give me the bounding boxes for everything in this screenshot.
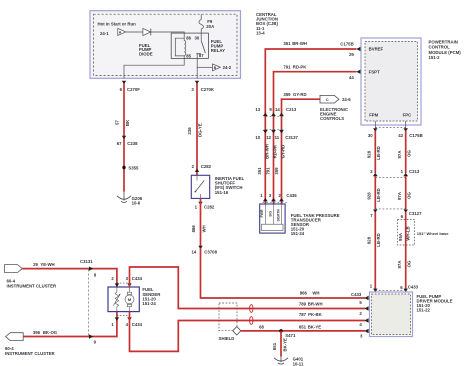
wire 359 GY-RD row and column bbox=[282, 92, 321, 204]
svg-text:YE-WH: YE-WH bbox=[40, 262, 54, 267]
svg-text:B: B bbox=[214, 66, 217, 70]
svg-text:BK-YE: BK-YE bbox=[283, 338, 288, 352]
svg-text:42: 42 bbox=[398, 133, 403, 138]
svg-text:SIGRTN: SIGRTN bbox=[277, 209, 281, 222]
svg-text:RD-PK: RD-PK bbox=[273, 144, 278, 159]
svg-text:44: 44 bbox=[349, 75, 354, 80]
svg-text:INSTRUMENT CLUSTER: INSTRUMENT CLUSTER bbox=[7, 284, 58, 289]
svg-text:C3131: C3131 bbox=[80, 259, 93, 264]
hot in start or run label bbox=[98, 22, 137, 27]
wire A-triangle to diode bbox=[126, 31, 143, 33]
svg-text:13: 13 bbox=[255, 107, 260, 112]
svg-text:BK-YE: BK-YE bbox=[308, 324, 322, 329]
svg-text:BVREF: BVREF bbox=[369, 47, 384, 52]
wire 789 BR-WH from sender pin 3 bbox=[130, 267, 366, 309]
svg-text:20A: 20A bbox=[206, 24, 214, 29]
wire row label 789 BR-WH bbox=[299, 301, 323, 306]
svg-text:24-2: 24-2 bbox=[223, 65, 232, 70]
svg-text:97A: 97A bbox=[397, 261, 402, 269]
svg-text:C433: C433 bbox=[408, 284, 419, 289]
svg-text:DG-YE: DG-YE bbox=[198, 123, 203, 137]
svg-text:BR-WH: BR-WH bbox=[292, 41, 307, 46]
connector C3131 pin 8 bbox=[80, 259, 97, 277]
svg-text:68: 68 bbox=[259, 324, 264, 329]
svg-text:396: 396 bbox=[33, 330, 41, 335]
svg-text:BR-WH: BR-WH bbox=[308, 301, 323, 306]
svg-text:789: 789 bbox=[299, 301, 307, 306]
connector C3131 dashed link bbox=[88, 270, 90, 337]
svg-text:C175B: C175B bbox=[409, 133, 422, 138]
svg-text:359: 359 bbox=[283, 92, 291, 97]
svg-text:10: 10 bbox=[255, 135, 260, 140]
svg-text:151-22: 151-22 bbox=[417, 308, 431, 313]
svg-text:24-1: 24-1 bbox=[100, 31, 109, 36]
svg-text:INSTRUMENT CLUSTER: INSTRUMENT CLUSTER bbox=[5, 351, 56, 356]
connector C238 bbox=[117, 136, 138, 146]
ground G401 bbox=[274, 356, 304, 366]
wire 651 BK-YE to ground bbox=[272, 331, 287, 357]
node A feed 24-1 bbox=[100, 28, 126, 35]
svg-text:10-11: 10-11 bbox=[293, 361, 304, 366]
connector C282 pin 2 bbox=[192, 164, 212, 172]
svg-text:29: 29 bbox=[349, 52, 354, 57]
wire 29 YE-WH row bbox=[22, 262, 117, 287]
connector C433 left pins bbox=[351, 292, 369, 338]
wire branch to B triangle bbox=[197, 66, 212, 68]
central junction box CJB outline bbox=[90, 11, 241, 79]
wire labels BR-WH 351 vertical bbox=[257, 144, 269, 174]
svg-text:C238: C238 bbox=[127, 141, 138, 146]
svg-text:C282: C282 bbox=[204, 205, 215, 210]
svg-text:C213: C213 bbox=[409, 169, 420, 174]
connector C433 top pins 1 6 bbox=[370, 284, 419, 293]
connector C 24-6 electronic engine controls bbox=[320, 95, 351, 121]
svg-text:151-24: 151-24 bbox=[142, 301, 156, 306]
connector C3131 pin 9 bbox=[89, 334, 97, 344]
alternate wire 95A WH-LB 151 wheel base bbox=[398, 220, 450, 245]
svg-text:14: 14 bbox=[192, 250, 197, 255]
svg-text:13-4: 13-4 bbox=[256, 31, 265, 36]
connector C434 top pins 2 3 bbox=[111, 276, 142, 287]
PCM bottom stubs bbox=[374, 121, 376, 129]
wire row label 787 PK-BK bbox=[299, 312, 323, 317]
wire 97A OG segment 2 bbox=[397, 176, 412, 209]
wire 351 BR-WH row and column bbox=[265, 41, 356, 203]
wire diode to relay coil bbox=[151, 32, 184, 38]
PCM label bbox=[429, 39, 462, 60]
CJB label bbox=[256, 12, 279, 36]
wire 791 RD-PK row and column bbox=[274, 64, 357, 203]
wire 866 WH vertical bbox=[191, 198, 207, 246]
svg-text:BK-OG: BK-OG bbox=[43, 330, 58, 335]
wire 57 BK vertical bbox=[115, 83, 130, 192]
svg-text:Hot in Start or Run: Hot in Start or Run bbox=[98, 22, 137, 27]
svg-text:351: 351 bbox=[283, 41, 291, 46]
wire 651 BK-YE row bbox=[241, 330, 365, 332]
inertia fuel shutoff switch bbox=[191, 175, 244, 198]
svg-text:10-6: 10-6 bbox=[132, 201, 141, 206]
connector C175B bottom pins 30 42 bbox=[368, 128, 423, 138]
svg-text:C433: C433 bbox=[351, 292, 362, 297]
fuel sender and pump motor bbox=[108, 287, 161, 312]
svg-text:C175B: C175B bbox=[340, 42, 353, 47]
connector C213 middle trio bbox=[255, 107, 296, 116]
svg-text:WH: WH bbox=[202, 225, 207, 232]
connector C175B pin 29 bbox=[340, 42, 360, 58]
connector C213 right pair bbox=[370, 169, 420, 178]
wire 396 BK-OG row bbox=[23, 312, 117, 337]
wire relay 85 to C270F exit bbox=[124, 56, 184, 79]
shield drain diamond bbox=[233, 327, 241, 335]
wire relay 87 to C270K exit bbox=[196, 54, 198, 79]
svg-text:FSPT: FSPT bbox=[369, 69, 380, 74]
svg-text:FPC: FPC bbox=[403, 113, 412, 118]
svg-text:SIG: SIG bbox=[268, 211, 272, 217]
svg-text:OG: OG bbox=[406, 260, 411, 267]
svg-text:S471: S471 bbox=[285, 333, 296, 338]
svg-text:787: 787 bbox=[299, 312, 307, 317]
ground G206 bbox=[117, 192, 143, 206]
svg-text:85: 85 bbox=[186, 53, 191, 58]
svg-text:C: C bbox=[326, 98, 329, 102]
diode fuel pump diode bbox=[139, 28, 153, 56]
connector C175B pin 44 bbox=[349, 70, 361, 81]
svg-text:PK-BK: PK-BK bbox=[308, 312, 323, 317]
connector C434 bottom pins 1 4 bbox=[111, 315, 142, 326]
svg-text:928: 928 bbox=[366, 236, 371, 244]
twisted pair loop on 789 bbox=[250, 305, 253, 313]
svg-text:C282: C282 bbox=[201, 164, 212, 169]
svg-text:29: 29 bbox=[33, 262, 38, 267]
svg-text:C270K: C270K bbox=[201, 87, 215, 92]
splice S355 bbox=[122, 165, 139, 170]
wire 238 DG-YE vertical bbox=[187, 83, 202, 175]
svg-text:C434: C434 bbox=[132, 276, 143, 281]
svg-text:14: 14 bbox=[275, 107, 280, 112]
fuel tank pressure transducer sensor bbox=[260, 204, 340, 236]
svg-text:DIODE: DIODE bbox=[139, 52, 153, 57]
relay fuel pump relay bbox=[171, 33, 225, 58]
wire 97A OG segment 1 bbox=[397, 131, 412, 174]
svg-text:791: 791 bbox=[266, 167, 271, 175]
svg-text:RELAY: RELAY bbox=[211, 48, 225, 53]
svg-text:SHIELD: SHIELD bbox=[219, 336, 235, 341]
svg-text:WH-LB: WH-LB bbox=[406, 226, 411, 240]
connector C435 bbox=[260, 193, 297, 203]
wire 928 LB-RD segment 1 bbox=[366, 131, 381, 174]
wire row label 68 and 651 BK-YE bbox=[259, 324, 321, 329]
powertrain control module PCM bbox=[361, 38, 421, 125]
svg-text:OG: OG bbox=[406, 192, 411, 199]
svg-text:WH: WH bbox=[312, 291, 319, 296]
svg-text:RD-PK: RD-PK bbox=[293, 64, 308, 69]
wire 928 LB-RD segment 3 bbox=[366, 212, 381, 289]
svg-text:C3137: C3137 bbox=[285, 135, 298, 140]
shield around 789 787 bbox=[219, 303, 237, 341]
svg-text:PWR: PWR bbox=[260, 209, 264, 217]
svg-text:866: 866 bbox=[191, 225, 196, 233]
svg-text:651: 651 bbox=[272, 342, 277, 350]
svg-text:CONTROLS: CONTROLS bbox=[320, 116, 344, 121]
wire 866 WH to FPDM pin5 bbox=[201, 248, 366, 298]
wire 97A OG segment 3 bbox=[397, 212, 412, 289]
connector C270K bbox=[191, 81, 214, 92]
fuel pump driver module bbox=[370, 292, 453, 337]
svg-text:LB-RD: LB-RD bbox=[376, 146, 381, 159]
svg-text:151-2: 151-2 bbox=[429, 55, 441, 60]
splice S471 bbox=[279, 329, 296, 338]
offpage connector instrument cluster bottom bbox=[5, 333, 56, 356]
wire row label 866 WH bbox=[300, 291, 320, 296]
svg-text:OG: OG bbox=[406, 150, 411, 157]
svg-text:GY-RD: GY-RD bbox=[293, 92, 307, 97]
svg-text:928: 928 bbox=[366, 150, 371, 158]
connector C282 pin 1 bbox=[195, 202, 215, 210]
wire 787 PK-BK from sender pin 4 bbox=[130, 312, 366, 352]
svg-text:791: 791 bbox=[283, 64, 291, 69]
svg-text:351: 351 bbox=[257, 167, 262, 175]
svg-text:GY-RD: GY-RD bbox=[281, 145, 286, 159]
wire labels RD-PK 791 vertical bbox=[266, 144, 278, 175]
wire 928 LB-RD segment 2 bbox=[366, 176, 381, 209]
node B feed 24-2 bbox=[213, 64, 232, 71]
connector C270F bbox=[120, 81, 141, 92]
svg-text:86: 86 bbox=[186, 36, 191, 41]
svg-text:151-24: 151-24 bbox=[291, 231, 305, 236]
svg-text:651: 651 bbox=[299, 324, 307, 329]
connector C3127 bbox=[370, 209, 422, 219]
fuse F9 20A bbox=[199, 15, 214, 34]
svg-text:928: 928 bbox=[366, 192, 371, 200]
connector C3708 bbox=[192, 246, 218, 255]
svg-text:S355: S355 bbox=[128, 165, 139, 170]
svg-text:30: 30 bbox=[195, 36, 200, 41]
svg-text:97A: 97A bbox=[397, 192, 402, 200]
svg-text:12: 12 bbox=[266, 135, 271, 140]
svg-text:30: 30 bbox=[368, 133, 373, 138]
offpage connector instrument cluster top bbox=[5, 265, 58, 289]
svg-text:BR-WH: BR-WH bbox=[264, 144, 269, 159]
svg-text:C270F: C270F bbox=[127, 87, 140, 92]
svg-text:C3708: C3708 bbox=[204, 250, 217, 255]
svg-text:67: 67 bbox=[117, 141, 122, 146]
svg-text:LB-RD: LB-RD bbox=[376, 188, 381, 201]
svg-text:95A: 95A bbox=[398, 233, 403, 241]
svg-text:LB-RD: LB-RD bbox=[376, 233, 381, 246]
twisted pair loop on 787 bbox=[250, 317, 253, 325]
connector C3137 middle trio bbox=[255, 130, 298, 141]
svg-text:24-6: 24-6 bbox=[342, 97, 351, 102]
svg-text:FPM: FPM bbox=[369, 113, 378, 118]
svg-text:C3127: C3127 bbox=[409, 211, 422, 216]
svg-text:11: 11 bbox=[275, 135, 280, 140]
svg-text:57: 57 bbox=[115, 120, 120, 125]
wire labels GY-RD 359 vertical bbox=[274, 145, 286, 175]
svg-text:C435: C435 bbox=[286, 193, 297, 198]
svg-text:C434: C434 bbox=[132, 322, 143, 327]
svg-text:97A: 97A bbox=[397, 151, 402, 159]
svg-text:866: 866 bbox=[300, 291, 308, 296]
svg-text:BK: BK bbox=[125, 119, 130, 126]
svg-text:A: A bbox=[119, 31, 122, 35]
svg-text:238: 238 bbox=[187, 127, 192, 135]
svg-text:C213: C213 bbox=[286, 107, 297, 112]
svg-text:151″ Wheel base: 151″ Wheel base bbox=[417, 231, 449, 236]
svg-text:151-16: 151-16 bbox=[215, 190, 229, 195]
svg-text:359: 359 bbox=[274, 167, 279, 175]
